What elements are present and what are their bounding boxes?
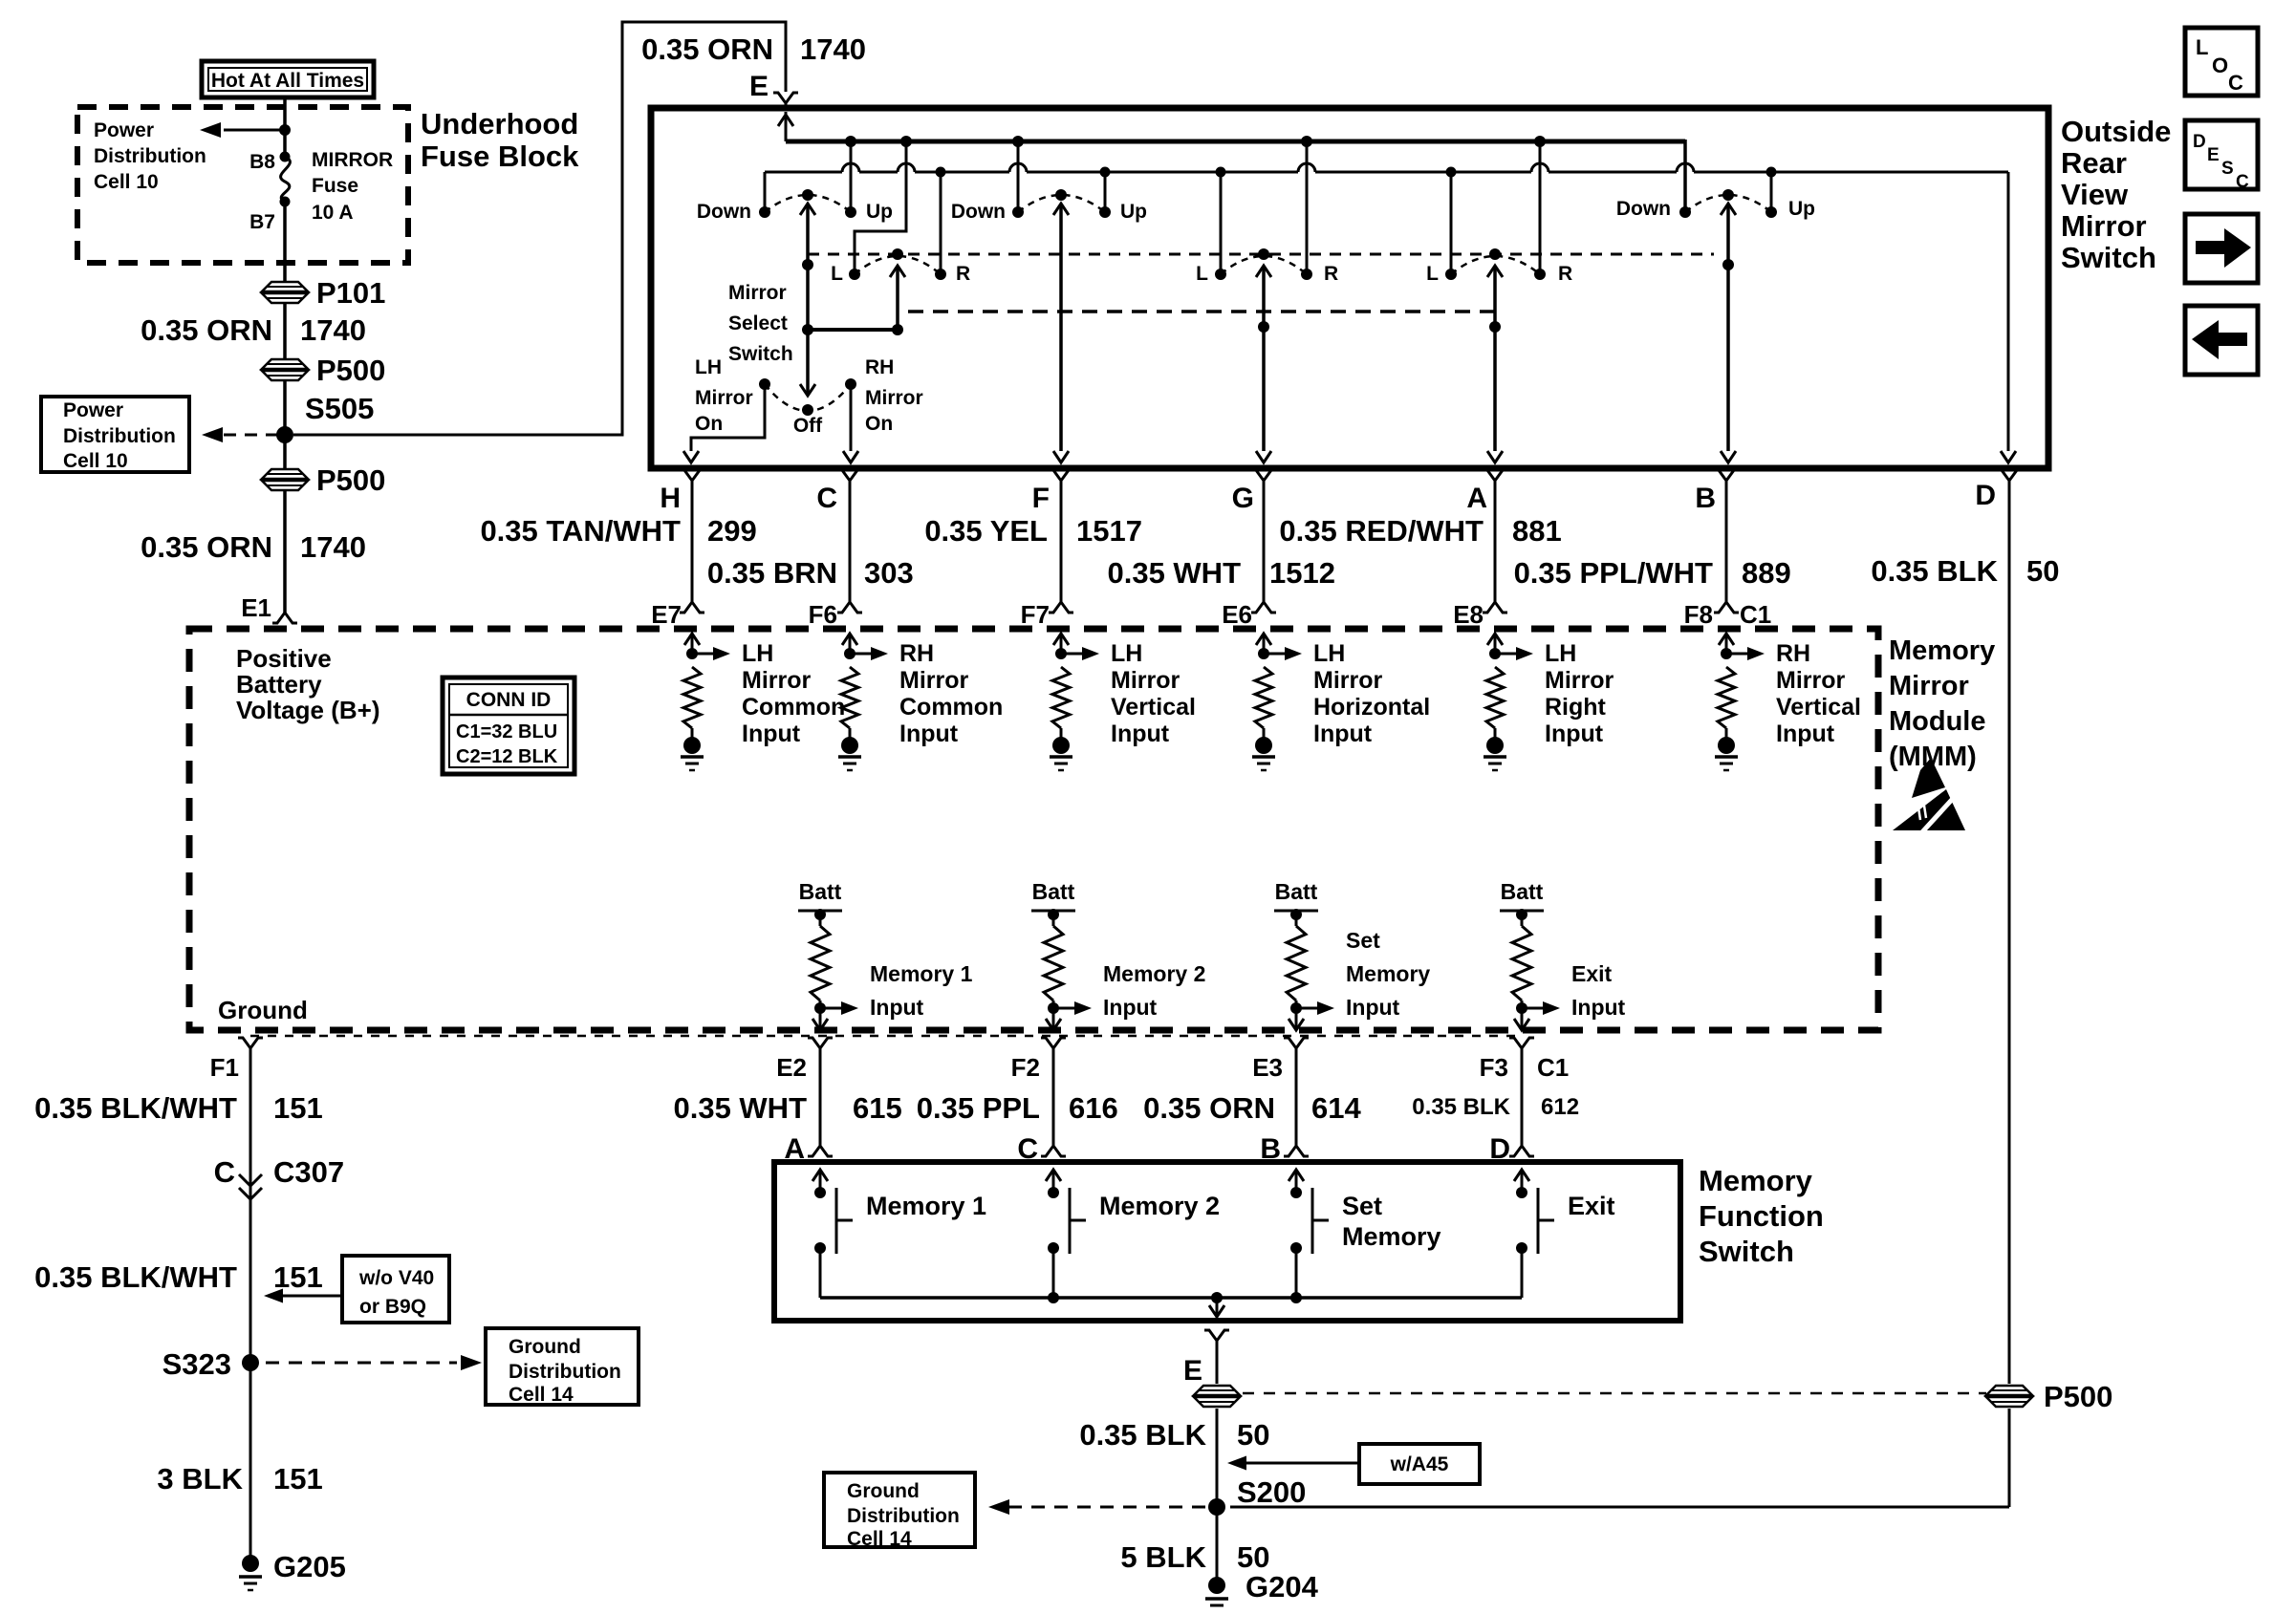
svg-text:C1: C1 bbox=[1740, 600, 1771, 629]
svg-text:E: E bbox=[2207, 145, 2220, 165]
svg-text:889: 889 bbox=[1742, 556, 1791, 590]
svg-text:F2: F2 bbox=[1011, 1053, 1040, 1082]
svg-text:Vertical: Vertical bbox=[1776, 694, 1861, 721]
svg-text:Up: Up bbox=[866, 201, 893, 223]
svg-text:Battery: Battery bbox=[236, 670, 322, 699]
svg-text:O: O bbox=[2212, 54, 2228, 77]
svg-text:E1: E1 bbox=[241, 593, 271, 622]
svg-text:LH: LH bbox=[1313, 640, 1345, 667]
svg-text:S323: S323 bbox=[162, 1347, 231, 1381]
svg-text:C: C bbox=[816, 483, 837, 514]
svg-text:151: 151 bbox=[273, 1260, 323, 1294]
svg-text:R: R bbox=[956, 263, 970, 285]
svg-text:Exit: Exit bbox=[1571, 961, 1613, 986]
svg-text:Input: Input bbox=[1313, 721, 1373, 747]
svg-text:0.35 BLK: 0.35 BLK bbox=[1871, 554, 1998, 588]
svg-text:0.35 WHT: 0.35 WHT bbox=[673, 1091, 807, 1125]
svg-text:S200: S200 bbox=[1237, 1475, 1306, 1509]
svg-text:Memory 2: Memory 2 bbox=[1099, 1192, 1220, 1220]
svg-text:B: B bbox=[1695, 483, 1716, 514]
svg-text:Down: Down bbox=[1616, 198, 1671, 220]
svg-text:F3: F3 bbox=[1480, 1053, 1508, 1082]
svg-text:S505: S505 bbox=[305, 392, 374, 425]
svg-text:P101: P101 bbox=[316, 276, 385, 310]
svg-text:Up: Up bbox=[1788, 198, 1815, 220]
svg-text:612: 612 bbox=[1541, 1094, 1579, 1120]
svg-text:Distribution: Distribution bbox=[63, 425, 176, 447]
svg-text:Input: Input bbox=[1776, 721, 1835, 747]
svg-text:Cell 14: Cell 14 bbox=[509, 1384, 574, 1406]
svg-text:Hot At All Times: Hot At All Times bbox=[211, 70, 364, 92]
svg-text:C: C bbox=[2236, 172, 2249, 192]
svg-text:View: View bbox=[2061, 178, 2129, 211]
svg-text:L: L bbox=[1196, 263, 1208, 285]
svg-text:C1=32 BLU: C1=32 BLU bbox=[456, 721, 557, 742]
svg-text:Common: Common bbox=[742, 694, 845, 721]
svg-text:Cell 10: Cell 10 bbox=[63, 450, 128, 472]
svg-text:C2=12 BLK: C2=12 BLK bbox=[456, 746, 558, 767]
svg-text:50: 50 bbox=[2026, 554, 2059, 588]
svg-text:615: 615 bbox=[853, 1091, 902, 1125]
svg-text:0.35 ORN: 0.35 ORN bbox=[641, 32, 773, 66]
svg-text:P500: P500 bbox=[316, 354, 385, 387]
svg-text:RH: RH bbox=[899, 640, 934, 667]
svg-text:w/A45: w/A45 bbox=[1390, 1453, 1449, 1475]
svg-text:10 A: 10 A bbox=[312, 202, 354, 224]
svg-text:Memory 2: Memory 2 bbox=[1103, 961, 1205, 986]
svg-text:Set: Set bbox=[1342, 1192, 1382, 1220]
svg-text:C: C bbox=[214, 1155, 235, 1189]
svg-text:Memory: Memory bbox=[1699, 1164, 1813, 1197]
svg-text:Power: Power bbox=[63, 399, 123, 421]
svg-text:Cell 14: Cell 14 bbox=[847, 1528, 912, 1550]
svg-text:E2: E2 bbox=[776, 1053, 807, 1082]
svg-text:LH: LH bbox=[1111, 640, 1142, 667]
svg-text:D: D bbox=[1975, 480, 1996, 511]
svg-text:151: 151 bbox=[273, 1462, 323, 1496]
svg-text:Input: Input bbox=[870, 995, 924, 1020]
svg-text:0.35 ORN: 0.35 ORN bbox=[1143, 1091, 1275, 1125]
svg-text:Batt: Batt bbox=[1501, 879, 1544, 904]
svg-text:0.35 BRN: 0.35 BRN bbox=[707, 556, 837, 590]
svg-text:C: C bbox=[2228, 71, 2243, 95]
svg-text:E: E bbox=[749, 71, 769, 102]
svg-text:B7: B7 bbox=[249, 211, 275, 233]
svg-text:Mirror: Mirror bbox=[1313, 667, 1383, 694]
svg-text:Right: Right bbox=[1545, 694, 1607, 721]
svg-text:Mirror: Mirror bbox=[742, 667, 812, 694]
svg-text:D: D bbox=[2193, 132, 2206, 152]
svg-text:S: S bbox=[2221, 159, 2234, 179]
svg-text:Horizontal: Horizontal bbox=[1313, 694, 1430, 721]
svg-text:Batt: Batt bbox=[799, 879, 842, 904]
svg-text:Mirror: Mirror bbox=[865, 387, 923, 409]
svg-text:L: L bbox=[1426, 263, 1439, 285]
svg-text:616: 616 bbox=[1069, 1091, 1118, 1125]
svg-text:or B9Q: or B9Q bbox=[359, 1296, 426, 1318]
svg-text:E6: E6 bbox=[1222, 600, 1252, 629]
svg-text:LH: LH bbox=[1545, 640, 1576, 667]
svg-text:Input: Input bbox=[1571, 995, 1626, 1020]
svg-text:LH: LH bbox=[695, 356, 722, 378]
svg-text:E7: E7 bbox=[651, 600, 682, 629]
svg-text:Set: Set bbox=[1346, 928, 1380, 953]
svg-text:Ground: Ground bbox=[509, 1336, 581, 1358]
svg-text:Input: Input bbox=[1111, 721, 1170, 747]
svg-text:Ground: Ground bbox=[847, 1480, 920, 1502]
svg-text:E8: E8 bbox=[1453, 600, 1484, 629]
svg-text:Positive: Positive bbox=[236, 644, 332, 673]
svg-text:Switch: Switch bbox=[728, 343, 793, 365]
svg-text:Fuse: Fuse bbox=[312, 175, 358, 197]
svg-text:881: 881 bbox=[1512, 514, 1562, 548]
svg-text:Input: Input bbox=[1346, 995, 1400, 1020]
svg-text:On: On bbox=[865, 413, 893, 435]
svg-text:614: 614 bbox=[1311, 1091, 1361, 1125]
svg-text:LH: LH bbox=[742, 640, 773, 667]
svg-text:1517: 1517 bbox=[1076, 514, 1142, 548]
svg-text:Mirror: Mirror bbox=[2061, 209, 2147, 243]
svg-text:Off: Off bbox=[793, 415, 823, 437]
svg-text:Memory 1: Memory 1 bbox=[870, 961, 973, 986]
svg-text:F8: F8 bbox=[1684, 600, 1713, 629]
svg-text:Cell 10: Cell 10 bbox=[94, 171, 159, 193]
svg-text:303: 303 bbox=[864, 556, 914, 590]
svg-text:0.35 PPL/WHT: 0.35 PPL/WHT bbox=[1514, 556, 1713, 590]
svg-text:Outside: Outside bbox=[2061, 115, 2171, 148]
svg-text:G: G bbox=[1232, 483, 1254, 514]
svg-text:0.35 RED/WHT: 0.35 RED/WHT bbox=[1279, 514, 1484, 548]
svg-text:On: On bbox=[695, 413, 723, 435]
svg-text:0.35 PPL: 0.35 PPL bbox=[917, 1091, 1040, 1125]
svg-text:0.35 BLK/WHT: 0.35 BLK/WHT bbox=[34, 1260, 237, 1294]
svg-text:B8: B8 bbox=[249, 151, 275, 173]
svg-text:G204: G204 bbox=[1245, 1570, 1319, 1603]
svg-text:C307: C307 bbox=[273, 1155, 344, 1189]
svg-text:299: 299 bbox=[707, 514, 757, 548]
svg-text:F: F bbox=[1032, 483, 1050, 514]
svg-text:Module: Module bbox=[1889, 706, 1986, 737]
svg-text:5 BLK: 5 BLK bbox=[1120, 1540, 1206, 1574]
svg-text:0.35 ORN: 0.35 ORN bbox=[141, 313, 272, 347]
svg-text:Underhood: Underhood bbox=[421, 107, 578, 140]
svg-text:Function: Function bbox=[1699, 1199, 1824, 1233]
svg-text:1512: 1512 bbox=[1269, 556, 1335, 590]
svg-text:Input: Input bbox=[1545, 721, 1604, 747]
svg-text:1740: 1740 bbox=[300, 313, 366, 347]
svg-text:P500: P500 bbox=[316, 463, 385, 497]
svg-text:Rear: Rear bbox=[2061, 146, 2127, 180]
svg-text:Exit: Exit bbox=[1568, 1192, 1615, 1220]
svg-text:R: R bbox=[1324, 263, 1338, 285]
svg-text:A: A bbox=[1466, 483, 1487, 514]
svg-text:Batt: Batt bbox=[1032, 879, 1075, 904]
svg-text:0.35 TAN/WHT: 0.35 TAN/WHT bbox=[480, 514, 681, 548]
svg-text:MIRROR: MIRROR bbox=[312, 149, 393, 171]
svg-text:0.35 WHT: 0.35 WHT bbox=[1107, 556, 1241, 590]
svg-text:H: H bbox=[660, 483, 681, 514]
svg-text:Mirror: Mirror bbox=[1111, 667, 1180, 694]
svg-text:1740: 1740 bbox=[300, 530, 366, 564]
svg-text:Down: Down bbox=[697, 201, 751, 223]
svg-text:0.35 BLK: 0.35 BLK bbox=[1412, 1094, 1510, 1120]
svg-text:Switch: Switch bbox=[2061, 241, 2156, 274]
svg-text:Mirror: Mirror bbox=[695, 387, 753, 409]
svg-text:Memory: Memory bbox=[1342, 1222, 1441, 1251]
svg-text:Mirror: Mirror bbox=[728, 282, 787, 304]
svg-text:0.35 BLK: 0.35 BLK bbox=[1079, 1418, 1206, 1452]
svg-text:F7: F7 bbox=[1021, 600, 1050, 629]
svg-text:Fuse Block: Fuse Block bbox=[421, 140, 579, 173]
svg-text:50: 50 bbox=[1237, 1540, 1269, 1574]
svg-text:G205: G205 bbox=[273, 1550, 346, 1583]
svg-text:Memory: Memory bbox=[1889, 635, 1995, 666]
svg-text:Memory: Memory bbox=[1346, 961, 1430, 986]
svg-text:0.35 YEL: 0.35 YEL bbox=[924, 514, 1048, 548]
svg-text:Distribution: Distribution bbox=[94, 145, 206, 167]
svg-text:3 BLK: 3 BLK bbox=[157, 1462, 243, 1496]
svg-text:0.35 ORN: 0.35 ORN bbox=[141, 530, 272, 564]
svg-text:Ground: Ground bbox=[218, 996, 308, 1024]
svg-text:Voltage (B+): Voltage (B+) bbox=[236, 696, 379, 724]
svg-text:Down: Down bbox=[951, 201, 1006, 223]
svg-text:Vertical: Vertical bbox=[1111, 694, 1196, 721]
svg-text:Input: Input bbox=[742, 721, 801, 747]
svg-text:1740: 1740 bbox=[800, 32, 866, 66]
svg-text:w/o V40: w/o V40 bbox=[358, 1267, 434, 1289]
svg-text:0.35 BLK/WHT: 0.35 BLK/WHT bbox=[34, 1091, 237, 1125]
svg-text:L: L bbox=[2196, 35, 2208, 59]
svg-text:Power: Power bbox=[94, 119, 154, 141]
svg-text:Distribution: Distribution bbox=[509, 1361, 621, 1383]
svg-text:Mirror: Mirror bbox=[1776, 667, 1846, 694]
svg-text:E3: E3 bbox=[1252, 1053, 1283, 1082]
svg-text:C1: C1 bbox=[1537, 1053, 1569, 1082]
svg-text:F6: F6 bbox=[809, 600, 837, 629]
svg-text:Input: Input bbox=[899, 721, 959, 747]
svg-text:Mirror: Mirror bbox=[1545, 667, 1614, 694]
svg-text:Select: Select bbox=[728, 312, 788, 334]
svg-text:CONN ID: CONN ID bbox=[466, 689, 552, 711]
svg-text:Switch: Switch bbox=[1699, 1235, 1794, 1268]
svg-text:Mirror: Mirror bbox=[1889, 671, 1969, 701]
svg-text:Distribution: Distribution bbox=[847, 1505, 960, 1527]
svg-text:L: L bbox=[831, 263, 843, 285]
svg-text:Memory 1: Memory 1 bbox=[866, 1192, 986, 1220]
svg-text:RH: RH bbox=[865, 356, 894, 378]
svg-text:50: 50 bbox=[1237, 1418, 1269, 1452]
svg-text:RH: RH bbox=[1776, 640, 1810, 667]
svg-text:Common: Common bbox=[899, 694, 1003, 721]
svg-text:151: 151 bbox=[273, 1091, 323, 1125]
svg-text:Mirror: Mirror bbox=[899, 667, 969, 694]
svg-text:Input: Input bbox=[1103, 995, 1158, 1020]
svg-text:E: E bbox=[1183, 1355, 1202, 1387]
svg-text:P500: P500 bbox=[2044, 1380, 2112, 1413]
svg-text:F1: F1 bbox=[210, 1053, 239, 1082]
svg-text:Up: Up bbox=[1120, 201, 1147, 223]
svg-text:Batt: Batt bbox=[1275, 879, 1318, 904]
svg-text:R: R bbox=[1558, 263, 1572, 285]
